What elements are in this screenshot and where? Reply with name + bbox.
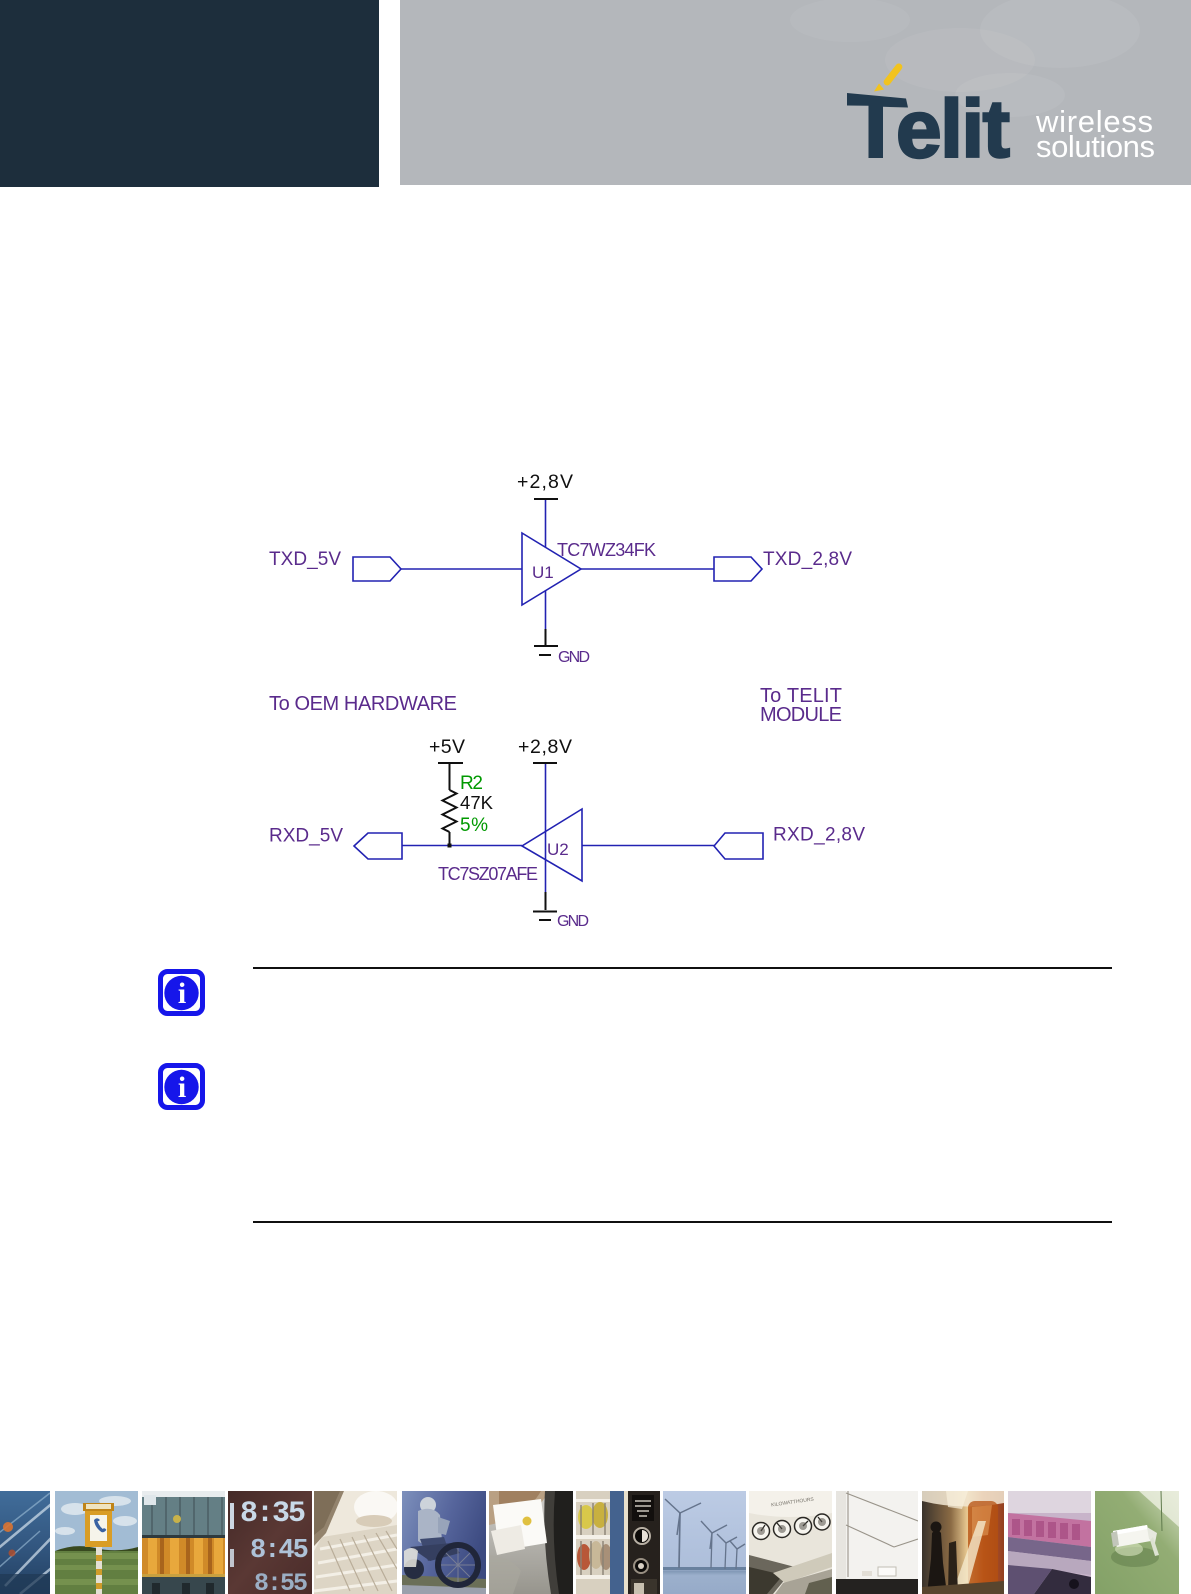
svg-text:8:35: 8:35: [240, 1497, 305, 1531]
svg-text:U2: U2: [547, 840, 569, 859]
svg-text:R2: R2: [460, 773, 483, 794]
svg-text:RXD_5V: RXD_5V: [269, 826, 343, 847]
svg-text:i: i: [178, 1071, 186, 1104]
svg-text:+2,8V: +2,8V: [517, 471, 573, 493]
svg-text:solutions: solutions: [1036, 129, 1155, 164]
svg-text:47K: 47K: [460, 792, 494, 813]
svg-text:TC7WZ34FK: TC7WZ34FK: [557, 540, 656, 560]
svg-text:U1: U1: [532, 563, 554, 582]
svg-text:elit: elit: [896, 84, 1010, 175]
svg-text:5%: 5%: [460, 815, 488, 836]
svg-text:GND: GND: [558, 649, 590, 666]
svg-text:GND: GND: [557, 913, 589, 930]
svg-text:+5V: +5V: [429, 736, 465, 758]
svg-text:8:45: 8:45: [250, 1536, 308, 1566]
svg-text:8:55: 8:55: [254, 1569, 307, 1594]
svg-text:TXD_5V: TXD_5V: [269, 549, 341, 570]
svg-text:To OEM HARDWARE: To OEM HARDWARE: [269, 693, 457, 715]
svg-text:TXD_2,8V: TXD_2,8V: [763, 549, 852, 570]
svg-text:i: i: [178, 977, 186, 1010]
svg-text:RXD_2,8V: RXD_2,8V: [773, 825, 865, 846]
svg-text:TC7SZ07AFE: TC7SZ07AFE: [438, 864, 538, 884]
svg-text:MODULE: MODULE: [760, 704, 842, 726]
svg-text:+2,8V: +2,8V: [518, 736, 572, 758]
